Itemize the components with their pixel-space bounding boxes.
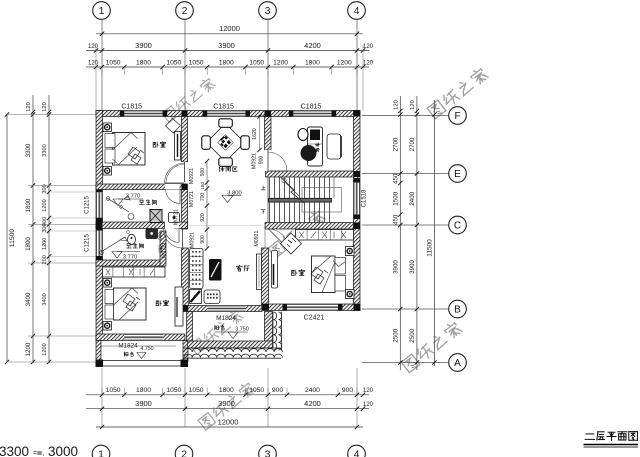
svg-text:C1518: C1518 [362,189,368,207]
svg-text:1200: 1200 [337,59,352,66]
svg-text:120: 120 [88,44,99,50]
door M0921 study (axis3 wall) [265,150,272,171]
wall axis2 living-room segment [182,248,189,306]
grid bubble 3 bottom [259,445,277,457]
hall dim chain 900/180/700/920/900 [206,161,208,249]
svg-text:3900: 3900 [135,41,152,50]
grid bubble 4 bottom [348,445,366,457]
svg-text:3000: 3000 [48,444,78,457]
svg-text:1200: 1200 [42,343,48,355]
TV on bedroom3 wall [257,254,262,290]
wardrobe bedroom1 [175,132,181,161]
balcony-left bottom edge [96,360,188,362]
grid bubble 4 top [348,2,366,20]
extension lines right to bubbles [362,115,449,117]
door opening M1824 bedroom2-balcony [124,334,162,341]
stair up mark 上 [261,186,265,190]
svg-text:M0721: M0721 [189,191,195,207]
wall bathroom2 bottom [96,260,163,266]
room label 卫生间 bathroom2 [126,243,143,248]
window jamb blocks left wall [96,188,103,193]
svg-text:≣,: ≣, [37,448,45,457]
door swing diamond bedroom1 top-right [166,119,181,134]
nightstand bedroom3 lower [346,290,355,299]
svg-text:1200: 1200 [42,238,48,250]
svg-text:1800: 1800 [25,198,32,212]
balcony-centre bottom wall [188,341,273,348]
svg-text:11500: 11500 [426,239,433,257]
room label 客厅 living room [237,265,250,271]
grid bubble 1 bottom [92,445,110,457]
nightstand bedroom2 upper [103,279,112,288]
svg-text:3400: 3400 [25,292,32,306]
wall axis3 upper segment [265,117,272,151]
grid bubble B [449,300,467,318]
svg-text:450: 450 [392,214,399,225]
balcony-centre right wall [265,312,273,349]
wall axis2 upper segment [182,117,188,163]
svg-text:4200: 4200 [304,399,321,408]
svg-text:2: 2 [181,449,187,457]
watermark 图纸之家 centre over stairs [268,209,326,258]
wall axis C left part [96,222,165,229]
junction block axis2/bathroom1 wall [182,184,188,190]
svg-text:2500: 2500 [409,328,416,342]
grid bubble F [449,107,467,125]
bathroom1 sink [169,213,180,223]
svg-text:1800: 1800 [136,59,151,66]
svg-text:900: 900 [342,387,353,394]
svg-text:1200: 1200 [42,199,48,211]
junction block axis C/right wall [354,223,361,230]
sofa long living room [190,249,204,289]
svg-text:900: 900 [259,156,265,165]
balcony-left side walls [96,341,101,362]
svg-text:3.750: 3.750 [235,327,249,333]
exterior wall top [96,111,360,117]
window C1815 middle (top wall) [207,111,245,117]
dim row 3900/3900/4200 top [86,50,369,52]
grid axis stems top [101,19,103,110]
balcony-centre railing right scallops [274,312,282,350]
dim chain inner left [48,95,50,363]
svg-text:1500: 1500 [392,191,399,205]
wardrobe bedroom2 right wall [175,287,183,326]
svg-text:1050: 1050 [166,59,181,66]
svg-text:1800: 1800 [25,237,32,251]
svg-text:1200: 1200 [273,59,288,66]
balcony-left dim line [100,345,176,347]
wall axis2 bathroom segment [182,190,188,230]
dim row 3900/3900/4200 bottom [86,408,369,410]
window C2421 (bedroom3 bottom wall) [287,304,338,311]
svg-text:4200: 4200 [304,41,321,50]
svg-text:2400: 2400 [305,387,320,394]
svg-text:B: B [454,305,461,316]
svg-text:2700: 2700 [392,137,399,151]
grid bubble C [449,216,467,234]
svg-text:C1815: C1815 [213,103,234,110]
svg-text:920: 920 [200,213,206,222]
junction block axis C/left wall [96,222,103,229]
svg-text:F: F [454,111,460,122]
svg-text:1050: 1050 [189,387,204,394]
svg-text:120: 120 [42,102,48,112]
dim row window chain bottom [86,394,369,396]
svg-text:4: 4 [354,5,360,17]
door swing bedroom1 leaf diamond [166,164,185,183]
svg-text:C1215: C1215 [85,196,91,214]
drawing title 二层平面图 [585,432,637,441]
extension line through hall y225 [190,224,261,226]
svg-text:120: 120 [363,402,374,408]
svg-text:3.770: 3.770 [126,194,141,200]
wall stairs top (axis E) [266,171,354,177]
closet row bedroom3 [296,230,354,241]
room label 书房 (vertical) [315,143,319,152]
stair break line [280,177,304,204]
stair landing outline [302,188,342,213]
svg-text:1800: 1800 [219,387,234,394]
svg-text:4.750: 4.750 [141,346,154,352]
svg-text:M0721: M0721 [174,209,180,225]
svg-text:C1215: C1215 [85,234,91,252]
stair side edges [267,178,269,223]
dim chain mid right [416,96,418,370]
svg-text:900: 900 [200,168,206,177]
svg-text:900: 900 [272,387,283,394]
study dark stool [301,145,317,161]
svg-text:C1815: C1815 [121,103,142,110]
svg-text:3300: 3300 [0,444,29,457]
svg-text:1: 1 [98,449,104,457]
bed bedroom3 [312,256,336,293]
svg-text:1: 1 [99,5,105,17]
chair study [327,134,341,159]
watermark 图纸之家 bottom-centre balcony [189,308,243,354]
svg-text:M0921: M0921 [190,232,196,248]
window jamb blocks right wall [354,178,361,183]
stair treads [269,178,271,223]
svg-text:C2421: C2421 [304,315,325,322]
dim row 12000 bottom [96,426,363,428]
nightstand bedroom1 upper [103,123,112,132]
svg-text:M1824: M1824 [118,343,138,350]
svg-text:1050: 1050 [106,387,121,394]
svg-text:120: 120 [88,60,99,66]
wall bedroom3 left [262,248,269,305]
wall stairs bottom (axis C) [265,223,354,230]
extension stubs top chain [101,67,103,75]
window C1815 left (top wall) [124,111,162,117]
room label 卧室 bedroom2 [156,300,168,306]
dim chain inner right [399,96,401,370]
door M0721 bathroom2 (axis C wall) [165,222,179,229]
junction block axis E/right wall [354,171,361,177]
svg-text:A: A [454,358,461,369]
svg-text:3400: 3400 [42,293,48,305]
svg-text:120: 120 [393,100,399,110]
svg-text:1050: 1050 [249,59,264,66]
door opening M1824 living-balcony [207,306,245,312]
bathroom1 floor drain [128,214,134,220]
svg-text:900: 900 [158,232,163,240]
junction block top-right corner [354,111,361,117]
bed bedroom1 [113,133,146,166]
svg-text:M0921: M0921 [252,153,258,169]
grid bubble E [449,165,467,183]
wall living room bottom (axis B) [182,306,263,312]
window jamb blocks C2421 [283,304,288,311]
svg-text:3900: 3900 [135,399,152,408]
grid bubble 3 top [259,2,277,20]
dim row window chain top [86,66,369,68]
svg-text:3: 3 [265,5,271,17]
desk study [308,127,323,166]
bathroom2 toilet [128,234,136,244]
svg-text:C1815: C1815 [301,103,322,110]
balcony-centre left wall [187,312,193,342]
svg-text:2700: 2700 [409,137,416,151]
extension lines left [7,114,96,116]
stair direction arrow [282,178,286,182]
dim row 12000 top [96,33,363,35]
grid bubble 2 top [176,2,194,20]
grid bubble A [449,354,467,372]
cabinet bedroom3 left wall [272,251,278,289]
svg-text:12000: 12000 [218,417,239,426]
stair down mark 下 [261,210,265,214]
svg-text:120: 120 [410,100,416,110]
window jamb blocks top wall [120,111,125,117]
svg-text:120: 120 [363,44,374,50]
living side table dark [190,290,202,304]
room label 休闲区 [219,166,237,171]
svg-text:1050: 1050 [166,387,181,394]
svg-text:1050: 1050 [249,387,264,394]
svg-text:3.770: 3.770 [123,255,138,261]
svg-text:M0721: M0721 [162,242,168,258]
svg-text:M1824: M1824 [216,315,236,322]
watermark 图纸之家 right-lower dims [401,320,463,372]
door M0721 bathroom1 [165,184,180,190]
balcony-left post left [96,360,104,368]
leisure table [206,123,244,161]
svg-text:450: 450 [392,173,399,184]
room label 卧室 bedroom3 [292,270,305,276]
window C1518 (right wall) [354,183,361,215]
living coffee table (TV cabinet dark) [209,259,222,281]
svg-text:120: 120 [363,388,374,394]
svg-text:2500: 2500 [392,328,399,342]
door M0921 bedroom1 (axis2 wall) [182,162,188,182]
svg-text:700: 700 [200,193,206,202]
window C1215 lower (left wall) [96,231,103,257]
study round chair top-left [298,129,308,141]
junction block axis3/top wall [265,111,272,117]
door M0921 bedroom3 [264,229,266,249]
balcony-centre railing bottom scallops [184,349,282,358]
balcony-left post right [181,360,189,368]
living single sofa [204,290,220,304]
junction block axis2/top wall [182,111,188,117]
dim chain outer left [32,95,34,363]
wall bedroom2 bottom [96,334,185,341]
wall bathroom2 lobby vertical [160,231,166,266]
door M0921 hall-living (axis2 wall) [182,229,184,248]
nightstand bedroom1 lower [103,167,112,176]
extension lines bottom [101,368,103,427]
svg-text:11500: 11500 [9,229,16,248]
watermark 图纸之家 bottom-centre lower [198,381,256,430]
watermark 图纸之家 top-right [427,66,489,118]
grid bubble 1 top [93,2,111,20]
dim chain line 11500 left [6,115,8,363]
bed bedroom2 [114,288,147,320]
closet row bedroom2 [103,267,166,277]
svg-text:120: 120 [363,60,374,66]
svg-text:12000: 12000 [219,24,240,33]
svg-text:4: 4 [354,449,360,457]
extension stubs left window edges [49,191,96,193]
exterior wall left [96,111,103,341]
wall bathroom1 top [96,184,188,190]
svg-text:900: 900 [200,235,206,244]
junction block bedroom3 bottom-left [262,304,270,311]
svg-text:3300: 3300 [42,144,48,156]
svg-text:3900: 3900 [218,41,235,50]
svg-text:3900: 3900 [392,260,399,274]
stair central handrail [269,198,332,202]
svg-text:1050: 1050 [189,59,204,66]
dim chain 11500 right [433,100,435,366]
grid bubble 2 bottom [175,445,193,457]
svg-text:1050: 1050 [106,59,121,66]
svg-text:2400: 2400 [409,191,416,205]
junction block axis B/right wall [354,304,361,311]
window C1815 right (top wall) [293,111,331,117]
svg-text:3900: 3900 [409,260,416,274]
svg-text:1200: 1200 [25,342,32,356]
junction block living bottom-left [182,306,189,312]
room label 卧室 bedroom1 [153,142,165,148]
svg-text:C: C [454,221,461,232]
svg-text:120: 120 [26,102,32,112]
bathroom2 sink dark box [146,228,159,239]
svg-text:3: 3 [265,449,271,457]
balcony-centre level 阳台 3.750 [215,325,224,329]
watermark 图纸之家 top-centre-left [161,76,215,122]
bathroom1 toilet [150,210,162,223]
wall bedroom3 bottom (axis B) [262,304,360,311]
exterior wall right [354,111,361,311]
svg-text:M0921: M0921 [189,168,195,184]
svg-text:1800: 1800 [305,59,320,66]
svg-text:2: 2 [182,5,188,17]
door leaf diamond bedroom3 [281,233,302,254]
window C1215 upper (left wall) [96,192,103,218]
nightstand bedroom3 upper [346,247,355,256]
room label 卫生间 bathroom1 [139,200,156,205]
svg-text:M0921: M0921 [254,230,260,246]
nightstand bedroom2 lower [103,322,112,331]
bathroom1 shower rail [107,198,129,212]
svg-text:3900: 3900 [218,399,235,408]
bathroom2 shower rail [101,237,125,252]
svg-text:1800: 1800 [219,59,234,66]
svg-text:1800: 1800 [136,387,151,394]
svg-text:180: 180 [200,182,205,190]
wall axis C stub at hall [174,222,188,229]
svg-text:1620: 1620 [252,128,258,140]
leisure chairs [219,119,233,128]
svg-text:E: E [454,169,461,180]
svg-text:3300: 3300 [25,143,32,157]
